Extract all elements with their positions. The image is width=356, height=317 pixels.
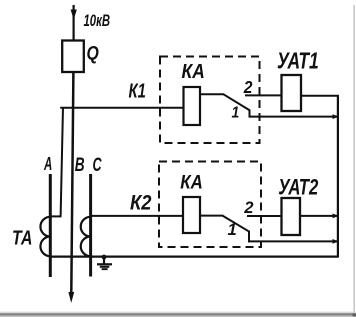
arrow: outgoing feeder arrowhead: [68, 292, 74, 303]
svg-text:Q: Q: [87, 42, 99, 64]
wire: incoming 10kV feeder drop: [72, 5, 74, 41]
svg-text:В: В: [75, 154, 85, 176]
wire K1: [60, 107, 184, 109]
breaker Q: [62, 41, 84, 73]
wire: CT A secondary riser: [61, 107, 63, 217]
page right border: [353, 5, 355, 314]
wire: KA2 coil to contact pivot: [200, 215, 223, 217]
wire K2: [91, 215, 185, 217]
svg-text:УАТ2: УАТ2: [278, 175, 318, 200]
wire: phase C: [89, 174, 92, 277]
wire: terminal 1 drop (upper): [249, 110, 251, 118]
wire: main feeder (phase B) from Q down: [71, 72, 73, 293]
wire: phase A: [49, 174, 52, 277]
wire: YAT2 to right bus: [300, 215, 339, 217]
contact blade KA2: [223, 216, 250, 232]
dashed box: relay KA2: [159, 162, 261, 248]
wire: terminal 2 to YAT1: [245, 94, 282, 96]
svg-text:А: А: [43, 155, 52, 175]
coil YAT1: [282, 75, 302, 111]
svg-text:С: С: [93, 155, 102, 176]
wire: terminal 1 to right bus (upper): [249, 116, 339, 118]
wire: right bus: [337, 95, 339, 258]
CT TA on phase C: [81, 217, 91, 256]
coil YAT2: [282, 198, 301, 235]
arrow: incoming supply arrowhead: [71, 10, 77, 20]
wire: CT A top hook: [50, 215, 62, 217]
svg-text:1: 1: [232, 105, 240, 122]
wire: terminal 1 drop (lower): [248, 231, 250, 243]
wire: terminal 2 to YAT2: [247, 215, 282, 217]
svg-text:ТА: ТА: [12, 227, 32, 249]
junction at bus (terminal 1 lower): [333, 239, 339, 244]
svg-text:2: 2: [243, 198, 254, 217]
contact blade KA1: [224, 94, 251, 110]
svg-text:КА: КА: [182, 60, 205, 82]
svg-text:1: 1: [228, 220, 237, 239]
svg-text:К1: К1: [129, 79, 146, 102]
wire: terminal 1 to right bus (lower): [248, 240, 339, 242]
junction at bus (YAT2): [333, 214, 339, 219]
svg-text:УАТ1: УАТ1: [277, 49, 319, 74]
svg-text:К2: К2: [130, 191, 151, 215]
svg-text:КА: КА: [180, 171, 203, 192]
ground: [103, 257, 105, 264]
dashed box: relay KA1: [160, 57, 260, 144]
CT TA on phase A: [40, 217, 50, 256]
wire: CT secondary common / ground bus: [50, 256, 338, 258]
relay coil KA1: [184, 87, 201, 125]
junction at bus upper: [333, 114, 339, 119]
relay coil KA2: [183, 197, 200, 233]
wire: KA1 coil to contact pivot: [200, 93, 224, 95]
svg-text:10кВ: 10кВ: [84, 11, 111, 30]
page bottom border: [0, 312, 356, 314]
wire: YAT1 to right bus: [301, 95, 339, 97]
